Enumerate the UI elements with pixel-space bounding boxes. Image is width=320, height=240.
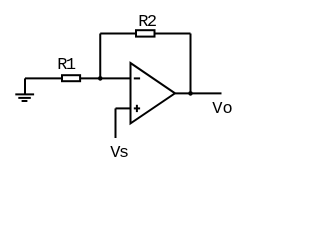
resistor R1 [62,75,80,81]
wire [25,77,62,79]
svg-text:R1: R1 [57,56,76,75]
resistor R2 [136,30,155,36]
ground [15,78,34,101]
wire [190,34,192,94]
svg-text:Vo: Vo [212,100,232,119]
wire [99,34,101,79]
wire [100,33,190,35]
node (input junction) [98,76,103,81]
wire [115,108,117,138]
wire [116,107,131,109]
node (output junction) [188,91,193,96]
wire [80,77,131,79]
svg-text:Vs: Vs [110,144,128,163]
svg-text:R2: R2 [138,13,156,32]
wire [175,92,222,94]
op-amp U1 [131,63,176,123]
